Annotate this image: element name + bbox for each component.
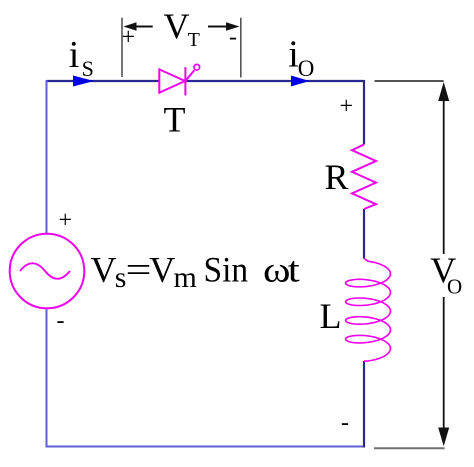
label equation Vs = Vm Sin wt xyxy=(91,249,300,294)
wire right vertical lower xyxy=(363,361,365,448)
wire top rail left of thyristor xyxy=(47,80,160,82)
svg-text:Sin: Sin xyxy=(204,249,249,289)
svg-text:S: S xyxy=(82,56,94,81)
current arrow i_S xyxy=(73,76,94,87)
wire left vertical lower xyxy=(46,309,48,448)
VT measurement right tick xyxy=(240,18,242,78)
current arrow i_O xyxy=(291,76,310,87)
svg-text:-: - xyxy=(57,308,65,334)
VT left arrow xyxy=(124,22,153,31)
svg-text:T: T xyxy=(164,99,186,139)
wire right vertical middle xyxy=(363,209,365,259)
svg-text:-: - xyxy=(341,410,349,436)
inductor L xyxy=(346,259,391,362)
svg-text:T: T xyxy=(188,29,200,51)
svg-text:R: R xyxy=(325,157,349,197)
label V_T xyxy=(164,6,200,51)
label i_S xyxy=(69,34,94,81)
svg-text:t: t xyxy=(288,250,300,290)
VO dimension line upper with up arrowhead xyxy=(438,82,449,254)
svg-text:i: i xyxy=(69,34,80,76)
wire right vertical upper xyxy=(363,80,365,145)
svg-text:m: m xyxy=(174,261,197,294)
label i_O xyxy=(288,34,314,82)
wire left vertical upper xyxy=(46,80,48,234)
svg-text:=: = xyxy=(126,249,152,289)
resistor R xyxy=(352,145,376,210)
svg-text:V: V xyxy=(91,250,117,290)
VO dimension line lower with down arrowhead xyxy=(438,297,449,446)
svg-text:+: + xyxy=(59,208,73,234)
label V_O xyxy=(430,250,462,298)
svg-text:O: O xyxy=(298,56,315,81)
AC source VS xyxy=(10,234,85,309)
wire top rail right of thyristor xyxy=(187,80,365,82)
svg-text:L: L xyxy=(320,296,342,336)
svg-text:+: + xyxy=(122,25,136,51)
VO bottom reference line xyxy=(374,447,445,449)
svg-text:+: + xyxy=(340,94,354,120)
svg-text:O: O xyxy=(447,274,462,298)
thyristor T xyxy=(159,64,199,95)
svg-text:V: V xyxy=(164,6,190,46)
VT measurement left tick xyxy=(121,18,123,77)
svg-text:ω: ω xyxy=(263,250,290,290)
wire bottom rail xyxy=(46,446,365,448)
svg-text:-: - xyxy=(229,25,237,51)
VO top reference line xyxy=(375,80,444,82)
svg-text:V: V xyxy=(149,250,175,290)
VT right arrow xyxy=(208,22,240,31)
